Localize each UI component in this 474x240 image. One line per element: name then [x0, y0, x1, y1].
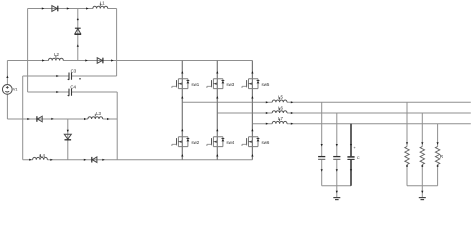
svg-text:L5: L5: [278, 95, 283, 100]
svg-text:L1: L1: [100, 0, 105, 5]
svg-text:L2: L2: [54, 52, 59, 57]
svg-text:sw1: sw1: [191, 82, 199, 87]
svg-text:sw5: sw5: [262, 82, 270, 87]
svg-text:C4: C4: [70, 84, 76, 89]
svg-text:sw3: sw3: [226, 82, 234, 87]
svg-text:L3: L3: [96, 111, 101, 116]
svg-text:sw6: sw6: [262, 140, 270, 145]
svg-text:C: C: [357, 155, 360, 160]
svg-text:V1: V1: [13, 88, 18, 92]
svg-text:C3: C3: [71, 68, 77, 73]
svg-text:L4: L4: [40, 153, 45, 158]
svg-text:L7: L7: [278, 116, 283, 121]
svg-text:L6: L6: [278, 105, 283, 110]
svg-text:sw4: sw4: [226, 140, 234, 145]
svg-text:sw2: sw2: [191, 140, 199, 145]
